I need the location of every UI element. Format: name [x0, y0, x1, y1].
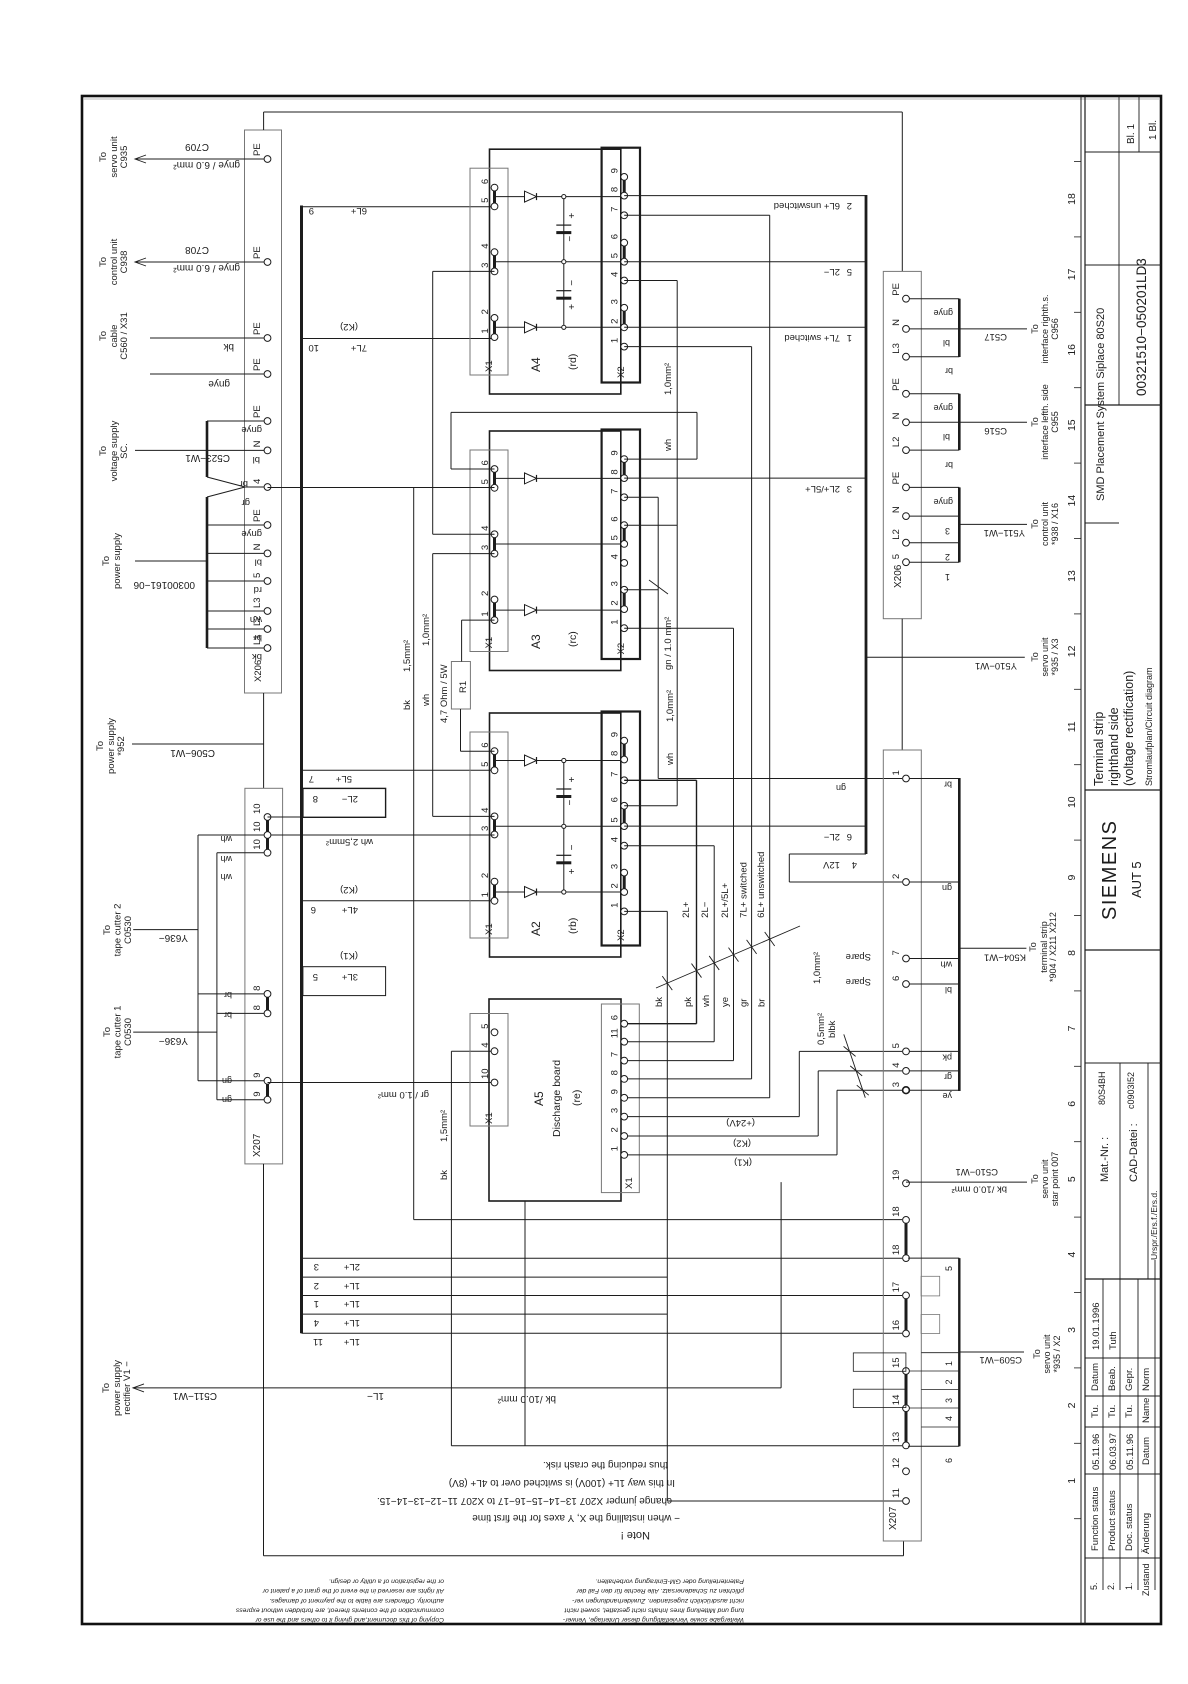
module A4 X2 link bar 5-6	[623, 243, 626, 262]
svg-text:*938 / X16: *938 / X16	[1050, 503, 1060, 545]
module A3 diode wire top	[495, 477, 625, 479]
cable C517 sheath	[958, 299, 961, 357]
module A3 X2 pin 6	[621, 522, 628, 529]
svg-text:CAD-Datei :: CAD-Datei :	[1128, 1123, 1140, 1182]
module A4 X2 pin 8	[621, 192, 628, 199]
module A2 X1 pin 5	[491, 767, 498, 774]
wire 6 4L+ (K2) rail to A2-X1 pin1	[302, 900, 495, 902]
svg-text:1: 1	[1066, 1478, 1078, 1484]
svg-text:6L+ unswitched: 6L+ unswitched	[774, 200, 840, 211]
note text block	[377, 1459, 680, 1541]
svg-text:X206: X206	[253, 660, 264, 682]
module A2 X2 pin 5	[621, 823, 628, 830]
module A3 X2 pin 1	[621, 625, 628, 632]
module A4 X1 pin 2	[491, 315, 498, 322]
svg-text:10: 10	[308, 342, 319, 353]
terminal X206 part2 N at x=1355.1	[903, 326, 910, 333]
svg-text:10: 10	[252, 803, 263, 814]
svg-text:X2: X2	[616, 366, 627, 378]
terminal X207 lower 3 at x=593.8	[903, 1087, 910, 1094]
svg-text:9: 9	[610, 1089, 621, 1094]
discharge board A5 outer box	[489, 999, 621, 1201]
svg-text:Tu.: Tu.	[1090, 1405, 1101, 1418]
wire 2 1L+ rail to 1L+ bus	[303, 1276, 667, 1278]
X207 link bar 10-10-10	[266, 817, 269, 853]
svg-text:X206: X206	[893, 564, 904, 588]
svg-text:N: N	[252, 543, 263, 550]
svg-text:To: To	[98, 331, 109, 341]
cable C516 sheath	[958, 394, 961, 450]
module A5 X1 connector box left	[470, 1014, 508, 1127]
svg-text:PE: PE	[891, 472, 902, 485]
svg-text:wh: wh	[665, 753, 676, 766]
svg-text:6L+ unswitched: 6L+ unswitched	[756, 852, 767, 918]
svg-text:1: 1	[610, 1146, 621, 1151]
svg-text:In this way 1L+ (100V) is swit: In this way 1L+ (100V) is switched over …	[449, 1477, 675, 1488]
svg-text:wh: wh	[220, 834, 233, 844]
svg-text:Spare: Spare	[846, 951, 871, 962]
svg-text:gnye: gnye	[241, 528, 262, 539]
wire R1 to A3-X1 pin1	[461, 620, 463, 661]
wire ye 2L+/5L+ A3-X2 pin1 to A5-X1 pin7	[624, 627, 733, 629]
svg-text:16: 16	[1066, 344, 1078, 356]
svg-text:8: 8	[610, 1070, 621, 1075]
cable C523-W1 core gnye to PE	[207, 420, 264, 422]
wire gn 1.0mm2 A3-X2 pin7/pin3 to X207 terminal 1	[624, 496, 658, 498]
svg-text:Terminal strip: Terminal strip	[1092, 712, 1106, 786]
module A2 X1 link bar 5-6	[493, 751, 496, 770]
wire X207-10top to 2L- box	[268, 816, 303, 818]
svg-text:7: 7	[891, 950, 902, 955]
terminal X206:PE at x=1310.0	[264, 371, 271, 378]
module A3 X2 pin 9	[621, 456, 628, 463]
svg-text:1: 1	[480, 328, 491, 333]
svg-text:bk: bk	[252, 651, 262, 662]
svg-text:gnye: gnye	[933, 308, 953, 318]
terminal X207 lower 12 at x=212.7	[903, 1468, 910, 1475]
cable Y511-W1 sheath	[958, 487, 961, 562]
svg-text:PE: PE	[252, 246, 263, 259]
svg-text:3: 3	[480, 263, 491, 268]
module A2 X1 link bar 1-2	[493, 882, 496, 901]
svg-text:4: 4	[480, 1042, 491, 1047]
terminal X206 part2 PE at x=1385.3	[903, 295, 910, 302]
svg-text:C708: C708	[185, 244, 209, 255]
svg-text:tape cutter 2: tape cutter 2	[113, 904, 124, 957]
wire A5 bk 1.5mm2 A5-X1 pin4 down to 1L- node	[451, 1050, 494, 1052]
module A2 X2 connector box	[602, 712, 640, 946]
terminal X206:N at x=1233.6	[264, 447, 271, 454]
cable C523-W1 sheath line	[206, 421, 209, 477]
svg-text:X207: X207	[252, 1133, 263, 1157]
svg-text:+: +	[567, 213, 578, 219]
module A5 X1 connector box bottom	[601, 1004, 639, 1193]
svg-text:9: 9	[1066, 875, 1078, 881]
svg-text:C523−W1: C523−W1	[185, 452, 230, 463]
svg-text:wh: wh	[250, 614, 263, 625]
svg-text:ye: ye	[720, 997, 731, 1007]
module A2 diode wire top	[495, 760, 625, 762]
svg-text:Y636−: Y636−	[159, 1035, 188, 1046]
svg-text:To: To	[102, 1027, 113, 1037]
module A2 middle wire	[495, 825, 625, 827]
module A3 X2 pin 8	[621, 475, 628, 482]
wire Y510-W1 bus to servo unit *935/X3	[866, 656, 1025, 658]
svg-text:C510−W1: C510−W1	[955, 1166, 998, 1177]
module A2 X1 connector box	[470, 732, 508, 938]
svg-text:communication of the contents: communication of the contents thereof, a…	[235, 1606, 444, 1613]
svg-text:Beab.: Beab.	[1107, 1366, 1118, 1391]
svg-text:−: −	[567, 844, 578, 850]
svg-text:6: 6	[847, 831, 852, 842]
wire 4 1L+ rail to 1L+ bus	[303, 1313, 667, 1315]
svg-text:bl: bl	[253, 454, 260, 465]
svg-text:6: 6	[891, 976, 902, 981]
svg-text:5: 5	[891, 1043, 902, 1048]
svg-text:PE: PE	[252, 143, 263, 156]
module A2 X1 pin 3	[491, 831, 498, 838]
svg-text:7L+: 7L+	[350, 342, 367, 353]
svg-text:1: 1	[610, 338, 621, 343]
cable K504-W1 cores	[910, 778, 960, 780]
svg-text:1.: 1.	[1124, 1582, 1134, 1590]
svg-text:18: 18	[891, 1245, 902, 1256]
terminal box 8 2L- on rail	[303, 788, 386, 817]
svg-text:C0530: C0530	[123, 1018, 134, 1046]
X207 link bar 18-18	[905, 1220, 908, 1258]
svg-text:Y511−W1: Y511−W1	[984, 527, 1025, 538]
module A4 diode wire top	[495, 196, 625, 198]
svg-text:1L−: 1L−	[367, 1390, 384, 1401]
svg-text:gn: gn	[222, 1095, 232, 1105]
svg-text:2: 2	[610, 1127, 621, 1132]
svg-text:Mat.-Nr. :: Mat.-Nr. :	[1099, 1137, 1111, 1182]
svg-text:wh: wh	[940, 960, 953, 970]
svg-text:wh: wh	[421, 694, 432, 707]
terminal X207 lower 18 at x=425.9	[903, 1255, 910, 1262]
cable slash 0.5mm2 blbk group	[844, 1034, 866, 1097]
module A2 X1 pin 2	[491, 878, 498, 885]
svg-text:2: 2	[891, 874, 902, 879]
wire X206 PE gnye stub	[150, 373, 264, 375]
svg-text:1,5mm²: 1,5mm²	[402, 640, 413, 672]
module A3 X2 pin 7	[621, 494, 628, 501]
module A3 X1 pin 5	[491, 484, 498, 491]
svg-text:8: 8	[313, 793, 318, 804]
wire A5 box bottom to 1L- node	[524, 1201, 526, 1446]
terminal X206:L2 at x=1055.0	[264, 626, 271, 633]
module A2 X2 pin 2	[621, 889, 628, 896]
svg-text:5: 5	[480, 479, 491, 484]
module A4 X1 pin 4	[491, 249, 498, 256]
wire 10 7L+ rail to A4-X1 pin1	[302, 338, 495, 340]
wire 1 1L+ rail to X207 terminal 17	[303, 1295, 902, 1297]
wire (K2) A5-X1 pin2 to X207 terminal 4	[628, 1135, 818, 1137]
svg-text:− when installing the X, Y axe: − when installing the X, Y axes for the …	[472, 1512, 680, 1523]
wire 9 6L+ rail to A4-X1 pin5	[302, 206, 495, 208]
svg-text:(rb): (rb)	[567, 918, 579, 934]
rectifier module A3 outer box	[490, 431, 621, 671]
svg-text:Tuth: Tuth	[1108, 1331, 1119, 1350]
svg-text:C955: C955	[1050, 411, 1060, 433]
svg-text:7: 7	[610, 207, 621, 212]
svg-text:6: 6	[480, 742, 491, 747]
module A3 X1 pin 2	[491, 596, 498, 603]
module A5 X1 pin 2	[621, 1133, 628, 1140]
svg-text:4: 4	[252, 479, 263, 484]
svg-text:To: To	[101, 1383, 112, 1393]
svg-text:6: 6	[1066, 1101, 1078, 1107]
X207 link bar 17-16	[905, 1295, 908, 1333]
svg-text:(K2): (K2)	[340, 321, 358, 332]
svg-text:SMD Placement System Siplac: SMD Placement System Siplace 80S20	[1095, 308, 1107, 501]
wire 7 5L+ rail to A2-X1 pin5	[302, 769, 495, 771]
svg-text:c0903I52: c0903I52	[1126, 1072, 1136, 1109]
module A4 X2 pin 1	[621, 343, 628, 350]
svg-text:1L+: 1L+	[343, 1317, 360, 1328]
svg-text:C938: C938	[119, 251, 130, 274]
svg-text:2: 2	[314, 1280, 319, 1291]
svg-text:05.11.96: 05.11.96	[1125, 1434, 1136, 1470]
svg-text:1: 1	[847, 332, 852, 343]
svg-text:7: 7	[610, 772, 621, 777]
svg-text:To: To	[1028, 942, 1038, 952]
wire 3 2L+/5L+ A3-X2 pin8 to bus	[624, 477, 866, 479]
cable slash mark gn wire	[649, 580, 668, 594]
svg-text:To: To	[1032, 1349, 1042, 1359]
module A5 X1 pin 3	[621, 1113, 628, 1120]
terminal X206 part2 N at x=1261.7	[903, 419, 910, 426]
terminal X207:8 at x=670.6	[264, 1010, 271, 1017]
svg-text:C516: C516	[984, 425, 1007, 436]
terminal X206:PE at x=1263.0	[264, 418, 271, 425]
svg-text:Spare: Spare	[846, 976, 871, 987]
svg-text:gn / 1.0 mm²: gn / 1.0 mm²	[663, 617, 674, 670]
wire R1 to A2-X1 pin6	[460, 709, 462, 751]
svg-text:4: 4	[610, 554, 621, 559]
svg-text:tung und Mitteilung ihres Inha: tung und Mitteilung ihres Inhalts nicht …	[563, 1606, 744, 1613]
module A4 X2 pin 2	[621, 324, 628, 331]
svg-text:gnye / 6.0 mm²: gnye / 6.0 mm²	[173, 262, 240, 273]
drawing area bottom boundary line	[1080, 96, 1082, 1624]
X207 link bar 15-14-13	[905, 1371, 908, 1445]
svg-text:Name: Name	[1141, 1398, 1152, 1423]
svg-text:2L−: 2L−	[700, 901, 711, 918]
svg-text:18: 18	[891, 1206, 902, 1217]
wire br 6L+ unswitched A4-X2 pin7 to A5-X1 pin9	[624, 214, 770, 216]
wire 2 6L+ unswitched A4-X2 pin8 to bus	[624, 195, 866, 197]
module A2 X2 pin 7	[621, 777, 628, 784]
svg-text:wh 2,5mm²: wh 2,5mm²	[326, 836, 374, 847]
module A4 X1 pin 1	[491, 334, 498, 341]
wire X206 part2 left end to bus region / X207	[901, 619, 903, 751]
wire Y636- to tape cutter 2	[133, 929, 198, 931]
svg-text:nicht ausdrücklich zugestanden: nicht ausdrücklich zugestanden. Zuwiderh…	[571, 1597, 744, 1604]
svg-text:3: 3	[610, 1108, 621, 1113]
svg-text:2: 2	[480, 309, 491, 314]
module A4 capacitor C1	[556, 224, 571, 226]
terminal X206:N at x=1130.6	[264, 550, 271, 557]
svg-text:3: 3	[314, 1261, 319, 1272]
wire (K1) A5-X1 pin1 to X207 terminal 3	[628, 1154, 837, 1156]
svg-text:3: 3	[480, 545, 491, 550]
svg-text:To: To	[95, 741, 106, 751]
cable C523-W1 core bl to N	[207, 449, 264, 451]
wire wh 1.0mm2 A4-X1 pin3 to A3-X1 pin4	[433, 533, 495, 535]
svg-text:C0530: C0530	[123, 916, 134, 944]
module A2 X2 pin 9	[621, 737, 628, 744]
module A4 capacitor C2	[556, 290, 571, 292]
svg-text:gn: gn	[836, 783, 846, 793]
module A3 X2 pin 2	[621, 606, 628, 613]
wire Y511-W1 to control unit	[959, 523, 1027, 525]
svg-text:X2: X2	[616, 643, 627, 655]
module A4 diode wire bottom	[495, 326, 625, 328]
svg-text:C517: C517	[984, 331, 1007, 342]
module A2 X2 pin 8	[621, 756, 628, 763]
svg-text:3: 3	[847, 483, 852, 494]
svg-text:5: 5	[1066, 1176, 1078, 1182]
svg-text:interface lefth. side: interface lefth. side	[1040, 384, 1050, 460]
svg-text:00321510−050201LD3: 00321510−050201LD3	[1134, 258, 1149, 396]
svg-text:bk: bk	[402, 700, 413, 710]
wire X207-left strip left end big loop to X207 lower	[263, 1164, 265, 1556]
module A4 X1 link bar 5-6	[493, 188, 496, 207]
wire 4 12V bus end to X207 terminal 2	[789, 853, 866, 855]
svg-text:Zustand: Zustand	[1141, 1563, 1151, 1596]
cable slash diagonal on fan wires	[656, 926, 800, 988]
PE bus thick line right side	[865, 195, 868, 854]
svg-text:80S4BH: 80S4BH	[1097, 1071, 1107, 1105]
cable 00300161-06 cores	[207, 524, 264, 526]
frame inner shadow line right edge	[84, 98, 1160, 100]
stub A3-X2 pin6 to wh wire	[624, 524, 677, 526]
terminal X207:10 at x=849.0	[264, 832, 271, 839]
svg-text:9: 9	[610, 732, 621, 737]
module A2 diode wire bottom	[495, 891, 625, 893]
svg-text:bk: bk	[222, 341, 234, 352]
rectifier module A2 outer box	[490, 713, 621, 957]
svg-text:Discharge board: Discharge board	[551, 1060, 563, 1137]
svg-text:PE: PE	[252, 509, 263, 522]
svg-text:3: 3	[1066, 1327, 1078, 1333]
svg-text:1 Bl.: 1 Bl.	[1148, 120, 1159, 140]
svg-text:Y510−W1: Y510−W1	[975, 660, 1017, 671]
svg-text:gn: gn	[222, 1076, 232, 1086]
svg-text:1: 1	[610, 903, 621, 908]
module A5 X1 pin 11	[621, 1038, 628, 1045]
svg-text:rd: rd	[254, 584, 262, 595]
svg-text:10: 10	[252, 821, 263, 832]
module A4 X1 pin 6	[491, 184, 498, 191]
svg-text:C956: C956	[1050, 318, 1060, 340]
module A3 X1 link bar 5-6	[493, 469, 496, 488]
svg-text:2L−: 2L−	[341, 793, 358, 804]
svg-text:2: 2	[610, 600, 621, 605]
copyright notice german left margin	[562, 1578, 745, 1623]
terminal X207:10 at x=831.3	[264, 849, 271, 856]
wire 5 2L- A4-X2 pin5 to bus	[624, 261, 866, 263]
terminal X206:L3 at x=1073.0	[264, 608, 271, 615]
svg-text:Gepr.: Gepr.	[1124, 1368, 1135, 1391]
svg-text:wh: wh	[663, 439, 674, 452]
svg-text:To: To	[1030, 1174, 1040, 1184]
svg-text:(K1): (K1)	[734, 1157, 752, 1168]
svg-text:−: −	[567, 280, 578, 286]
svg-text:9: 9	[610, 168, 621, 173]
terminal X207:8 at x=690.1	[264, 991, 271, 998]
terminal X206 part2 5 at x=1121.8	[903, 559, 910, 566]
wire 1 7L+ switched A4-X2 pin2 to bus	[624, 326, 866, 328]
svg-text:5: 5	[480, 762, 491, 767]
svg-text:9: 9	[309, 205, 314, 216]
svg-text:*904 / X211 X212: *904 / X211 X212	[1048, 912, 1058, 982]
wire C517 to interface righthand side	[959, 328, 1027, 330]
svg-text:br: br	[240, 478, 248, 489]
svg-text:SIEMENS: SIEMENS	[1099, 819, 1121, 920]
module A3 X2 link bar 5-6	[623, 525, 626, 544]
svg-text:1,0mm²: 1,0mm²	[665, 690, 676, 722]
terminal box 5 3L+ below rail	[303, 967, 386, 996]
svg-text:X1: X1	[484, 637, 495, 649]
svg-text:Datum: Datum	[1090, 1363, 1101, 1391]
svg-text:2: 2	[944, 1379, 954, 1384]
svg-text:Tu.: Tu.	[1107, 1405, 1118, 1418]
svg-text:13: 13	[1066, 570, 1078, 582]
module A2 X2 pin 4	[621, 842, 628, 849]
svg-text:3: 3	[945, 526, 950, 536]
svg-text:pflichten zu Schadenersatz. Al: pflichten zu Schadenersatz. Alle Rechte …	[576, 1587, 745, 1594]
svg-text:12: 12	[891, 1458, 902, 1469]
module A5 X1 pin 7	[621, 1057, 628, 1064]
svg-text:bk: bk	[654, 997, 665, 1007]
svg-text:Bl. 1: Bl. 1	[1126, 124, 1137, 144]
svg-text:L3: L3	[252, 597, 263, 608]
svg-text:5: 5	[891, 554, 902, 559]
svg-text:authority. Offenders are liabl: authority. Offenders are liable to the p…	[269, 1597, 444, 1604]
small link boxes near 17 16	[921, 1276, 940, 1296]
module A3 X1 connector box	[470, 450, 508, 652]
terminal X206 part2 L2 at x=1233.9	[903, 447, 910, 454]
terminal strip X206 part2 box	[883, 271, 921, 618]
module A4 X2 pin 6	[621, 239, 628, 246]
terminal X207 lower 2 at x=802.0	[903, 879, 910, 886]
svg-text:change jumper X207 13−14−15−16: change jumper X207 13−14−15−16−17 to X20…	[377, 1495, 672, 1506]
svg-text:blbk: blbk	[827, 1020, 838, 1038]
svg-text:X1: X1	[484, 360, 495, 372]
svg-text:10: 10	[1066, 796, 1078, 808]
module A5 X1 pin 9	[621, 1094, 628, 1101]
svg-text:N: N	[891, 506, 902, 513]
module A2 X2 link bar 5-6	[623, 806, 626, 826]
svg-text:To: To	[1030, 417, 1040, 427]
svg-text:br: br	[224, 1010, 232, 1020]
svg-text:N: N	[891, 412, 902, 419]
svg-text:5.: 5.	[1089, 1582, 1099, 1590]
svg-text:2L+: 2L+	[343, 1261, 360, 1272]
module A2 X1 link bar 3-4	[493, 816, 496, 834]
svg-text:To: To	[98, 257, 109, 267]
svg-text:00300161−06: 00300161−06	[133, 579, 195, 590]
wire X206 PE bk to cable C560/X31	[150, 337, 264, 339]
svg-text:19.01.1996: 19.01.1996	[1091, 1302, 1102, 1350]
svg-text:br: br	[945, 460, 953, 470]
svg-text:12V: 12V	[822, 859, 840, 870]
svg-text:PE: PE	[891, 378, 902, 391]
wire 6 2L- A2-X2 pin5 to bus	[624, 825, 866, 827]
terminal X207:9 at x=603.2	[264, 1077, 271, 1084]
svg-text:10: 10	[252, 839, 263, 850]
